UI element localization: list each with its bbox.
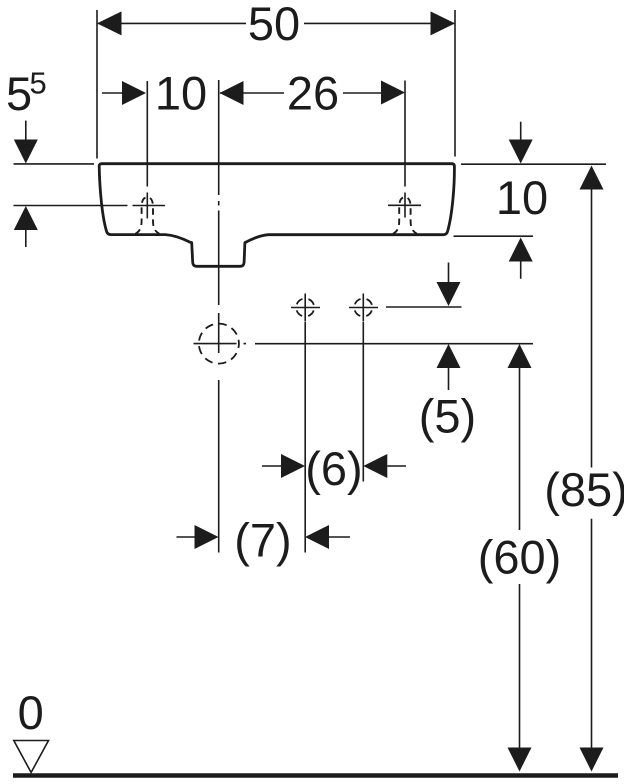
arrow shared at center line (points left) — [220, 81, 244, 105]
datum triangle — [14, 741, 49, 773]
dim (6) arrows — [262, 465, 283, 467]
dim (5): up arrow at trap level — [437, 344, 461, 368]
tap hole 1 dashed bell — [135, 197, 159, 234]
svg-text:50: 50 — [248, 0, 300, 50]
arrow 5.5 down — [25, 121, 27, 141]
tap hole 2 crosshair — [388, 204, 421, 206]
arrow 26 right (points right) — [381, 81, 405, 105]
floor line — [13, 773, 618, 778]
reference line bottom of basin right — [454, 235, 534, 237]
screw hole level line — [386, 306, 462, 308]
dim (5): down arrow at screw level — [448, 263, 450, 284]
svg-text:0: 0 — [18, 686, 44, 739]
reference line tap hole level left — [14, 205, 128, 207]
arrow 50 right — [431, 11, 456, 35]
arrow 10 left (points right) — [122, 81, 146, 105]
arrow 50 left — [97, 11, 122, 35]
screw hole 1 — [296, 299, 314, 317]
arrow 5.5 up — [14, 206, 38, 230]
screw hole 1 extension line down — [304, 322, 306, 553]
svg-text:5: 5 — [6, 67, 32, 120]
svg-text:(60): (60) — [478, 531, 562, 584]
screw hole 2 — [354, 299, 372, 317]
svg-text:10: 10 — [155, 67, 207, 120]
svg-text:10: 10 — [496, 171, 548, 224]
dim (60) line — [508, 344, 532, 368]
trap crosshair horizontal — [194, 343, 237, 345]
screw hole 2 extension line down — [362, 322, 364, 482]
dimension line 50 — [98, 22, 246, 24]
dim (85) line — [580, 166, 604, 190]
svg-text:(6): (6) — [305, 442, 362, 495]
trap level line — [255, 343, 533, 345]
svg-text:(7): (7) — [234, 514, 291, 567]
right dim 10: up arrow — [509, 238, 533, 262]
tap hole 2 center line — [404, 81, 406, 187]
extension line left of 50 dim — [96, 10, 98, 159]
dim (7) arrows — [177, 536, 197, 538]
basin outline — [99, 164, 454, 267]
svg-text:(5): (5) — [419, 390, 476, 443]
dimension line 10/26 row — [102, 92, 125, 94]
svg-text:(85): (85) — [544, 463, 624, 516]
reference line top of basin left — [14, 163, 95, 165]
extension line right of 50 dim — [454, 10, 456, 157]
right dim 10: down arrow — [520, 122, 522, 141]
svg-text:5: 5 — [30, 66, 47, 101]
water trap dashed circle — [199, 324, 239, 364]
drain center line (dash-dot segments) — [218, 80, 220, 195]
svg-text:26: 26 — [287, 67, 339, 120]
reference line top of basin right — [461, 163, 606, 165]
tap hole 1 center line — [146, 81, 148, 187]
tap hole 2 dashed bell — [393, 197, 417, 234]
